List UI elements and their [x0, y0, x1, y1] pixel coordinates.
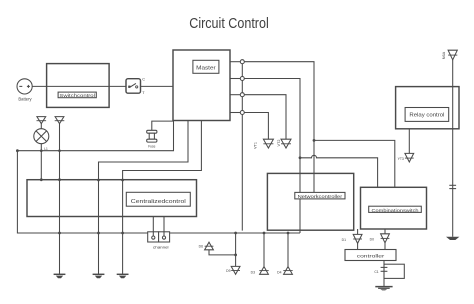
- wire switch to master: [141, 85, 174, 87]
- svg-text:N6A: N6A: [442, 51, 446, 59]
- svg-text:D3: D3: [251, 271, 255, 275]
- diode D0: [370, 229, 390, 250]
- svg-text:Relay control: Relay control: [409, 113, 444, 119]
- wire left vertical to bus: [17, 151, 300, 233]
- junction dot left: [16, 149, 19, 152]
- svg-text:D6: D6: [199, 244, 203, 248]
- wire relay to YT3: [408, 129, 410, 154]
- capacitor C2 plates: [449, 185, 456, 188]
- wire output2 down: [244, 79, 300, 193]
- box Centralizedcontrol: [27, 180, 197, 217]
- svg-text:C: C: [142, 78, 145, 82]
- svg-text:VT2: VT2: [277, 140, 281, 147]
- diode D1: [342, 229, 362, 250]
- svg-text:D0: D0: [370, 238, 374, 242]
- junction dot A-boxtop: [97, 179, 100, 182]
- arrow T2: [55, 117, 64, 124]
- wire A master pin1 to control box: [99, 121, 189, 234]
- arrow N6A: [442, 50, 457, 60]
- arrow YT3: [398, 153, 414, 162]
- junction dot A-bus: [97, 232, 100, 235]
- box controller: [345, 250, 396, 261]
- connector channel: [148, 217, 170, 250]
- fuse F1: [147, 130, 157, 148]
- wire master output stubs: [230, 62, 240, 113]
- wire N6A down: [452, 60, 454, 237]
- svg-text:L1: L1: [44, 147, 48, 151]
- junction dot A1: [313, 139, 316, 142]
- svg-text:VT1: VT1: [254, 142, 258, 149]
- wire fuse to master: [152, 121, 174, 130]
- svg-text:channel: channel: [153, 244, 169, 249]
- wire output3 to VT2: [244, 95, 286, 140]
- junction dot D3-bus: [263, 232, 266, 235]
- switch S1: [126, 78, 145, 95]
- ground G4: [375, 287, 392, 291]
- wire loop right of C1: [384, 264, 404, 278]
- wire lamp to control box: [40, 144, 42, 180]
- wire node column: [241, 62, 243, 231]
- svg-text:D1: D1: [342, 238, 346, 242]
- junction dot B-boxtop: [121, 179, 124, 182]
- junction dot lamp-boxtop: [40, 178, 43, 181]
- junction dot T2-bus: [58, 232, 61, 235]
- wire output4 to VT1: [244, 113, 268, 140]
- svg-text:YT3: YT3: [398, 157, 404, 161]
- arrow VT2: [277, 139, 291, 148]
- battery B1: [17, 79, 33, 102]
- wire T2 down through box to bus: [59, 124, 61, 233]
- arrow T1: [37, 117, 46, 124]
- box Switchcontrol: [47, 64, 110, 108]
- node terminals on master outputs: [240, 60, 244, 115]
- svg-text:controller: controller: [357, 253, 385, 259]
- wire T1 to lamp: [40, 124, 42, 129]
- svg-text:Battery: Battery: [18, 97, 32, 102]
- wire B master pin2 to control box: [123, 121, 202, 234]
- svg-text:Networkcontroller: Networkcontroller: [298, 194, 343, 200]
- ground G2: [93, 233, 105, 278]
- box Networkcontroller: [267, 173, 353, 230]
- svg-text:C1: C1: [374, 270, 378, 274]
- arrow VT1: [254, 139, 274, 149]
- svg-text:Master: Master: [196, 65, 216, 71]
- lamp L1: [34, 129, 49, 151]
- junction dot B-bus: [121, 232, 124, 235]
- wire H2 with hop to combination switch: [300, 155, 378, 187]
- box Master U1: [173, 50, 230, 121]
- ground G5: [446, 237, 459, 240]
- svg-text:D9: D9: [226, 269, 230, 273]
- ground G3: [117, 233, 129, 278]
- wire controller to ground: [383, 261, 385, 287]
- diode D9: [226, 233, 240, 274]
- wire battery to switch S1: [32, 85, 126, 87]
- junction dot lamp-busline: [40, 149, 43, 152]
- wire master left edge down to node line: [17, 121, 173, 151]
- box Combinationswitch: [361, 187, 427, 229]
- box Relay control: [396, 87, 459, 129]
- wire output2 lower segment to bus: [299, 199, 301, 233]
- junction dot D4-bus: [287, 232, 290, 235]
- junction dot D6-D9: [234, 254, 237, 257]
- diode D3: [251, 233, 269, 275]
- svg-text:Combinationswitch: Combinationswitch: [372, 208, 419, 214]
- svg-text:D4: D4: [277, 271, 281, 275]
- ground G1: [54, 233, 66, 278]
- junction dot T2-boxtop: [58, 178, 61, 181]
- junction dot D9-bus: [234, 232, 237, 235]
- junction dot T2-busline: [58, 149, 61, 152]
- svg-text:Centralizedcontrol: Centralizedcontrol: [131, 199, 186, 205]
- wire output1 to junction: [244, 62, 314, 193]
- capacitor C1: [374, 267, 387, 274]
- diode D4: [277, 233, 293, 275]
- svg-text:Switchcontrol: Switchcontrol: [59, 93, 95, 99]
- wire H1 to combination switch: [314, 140, 395, 187]
- junction dot A2: [299, 156, 302, 159]
- svg-text:Fuse: Fuse: [148, 145, 155, 149]
- svg-text:Circuit Control: Circuit Control: [189, 16, 269, 32]
- diode D6: [199, 242, 236, 255]
